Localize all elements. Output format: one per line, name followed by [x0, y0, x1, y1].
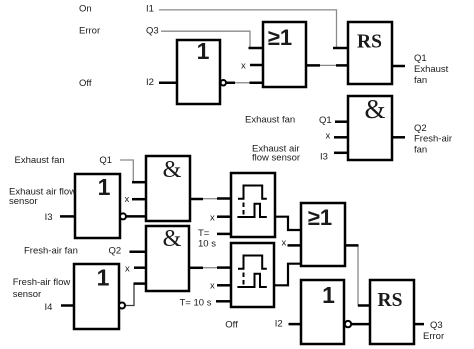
svg-text:&: & [364, 94, 385, 124]
svg-text:I2: I2 [146, 77, 154, 88]
svg-text:Error: Error [79, 25, 100, 36]
svg-text:1: 1 [98, 174, 111, 200]
svg-text:Off: Off [79, 78, 92, 89]
svg-text:fan: fan [414, 75, 427, 86]
svg-text:sensor: sensor [13, 289, 42, 300]
svg-text:Q1: Q1 [319, 115, 332, 126]
svg-text:On: On [79, 3, 92, 14]
svg-text:Q3: Q3 [430, 320, 443, 331]
svg-text:I2: I2 [275, 318, 283, 329]
svg-text:≥1: ≥1 [268, 25, 292, 50]
svg-text:x: x [210, 212, 215, 223]
svg-text:Q2: Q2 [109, 246, 122, 257]
svg-text:T= 10 s: T= 10 s [180, 297, 212, 308]
svg-text:x: x [241, 61, 246, 72]
svg-text:Q1: Q1 [414, 53, 427, 64]
svg-text:RS: RS [378, 290, 403, 311]
svg-text:Q3: Q3 [146, 25, 159, 36]
svg-text:flow sensor: flow sensor [252, 152, 300, 163]
svg-text:x: x [125, 264, 130, 275]
svg-text:I4: I4 [45, 302, 53, 313]
svg-text:x: x [210, 280, 215, 291]
svg-text:Error: Error [423, 331, 444, 342]
svg-text:x: x [125, 194, 130, 205]
svg-text:Fresh-air fan: Fresh-air fan [24, 246, 78, 257]
svg-text:1: 1 [322, 282, 335, 308]
svg-text:sensor: sensor [9, 196, 38, 207]
svg-text:RS: RS [357, 32, 382, 53]
svg-text:x: x [326, 131, 331, 142]
svg-text:10 s: 10 s [198, 239, 216, 250]
svg-text:Exhaust fan: Exhaust fan [15, 155, 65, 166]
svg-text:Fresh-air: Fresh-air [414, 133, 452, 144]
svg-text:Exhaust fan: Exhaust fan [245, 115, 295, 126]
svg-text:≥1: ≥1 [308, 205, 332, 230]
svg-text:&: & [163, 226, 182, 252]
svg-text:Q2: Q2 [414, 123, 427, 134]
svg-text:1: 1 [197, 38, 210, 64]
svg-text:&: & [163, 157, 182, 183]
svg-text:T=: T= [198, 228, 210, 239]
svg-text:fan: fan [414, 144, 427, 155]
svg-text:1: 1 [97, 265, 110, 291]
svg-text:x: x [282, 238, 287, 249]
svg-text:Fresh-air flow: Fresh-air flow [13, 277, 71, 288]
svg-text:Off: Off [225, 320, 238, 331]
svg-text:Q1: Q1 [99, 155, 112, 166]
svg-text:I1: I1 [146, 3, 154, 14]
svg-text:I3: I3 [45, 212, 53, 223]
svg-text:Exhaust: Exhaust [414, 64, 449, 75]
svg-text:I3: I3 [320, 151, 328, 162]
